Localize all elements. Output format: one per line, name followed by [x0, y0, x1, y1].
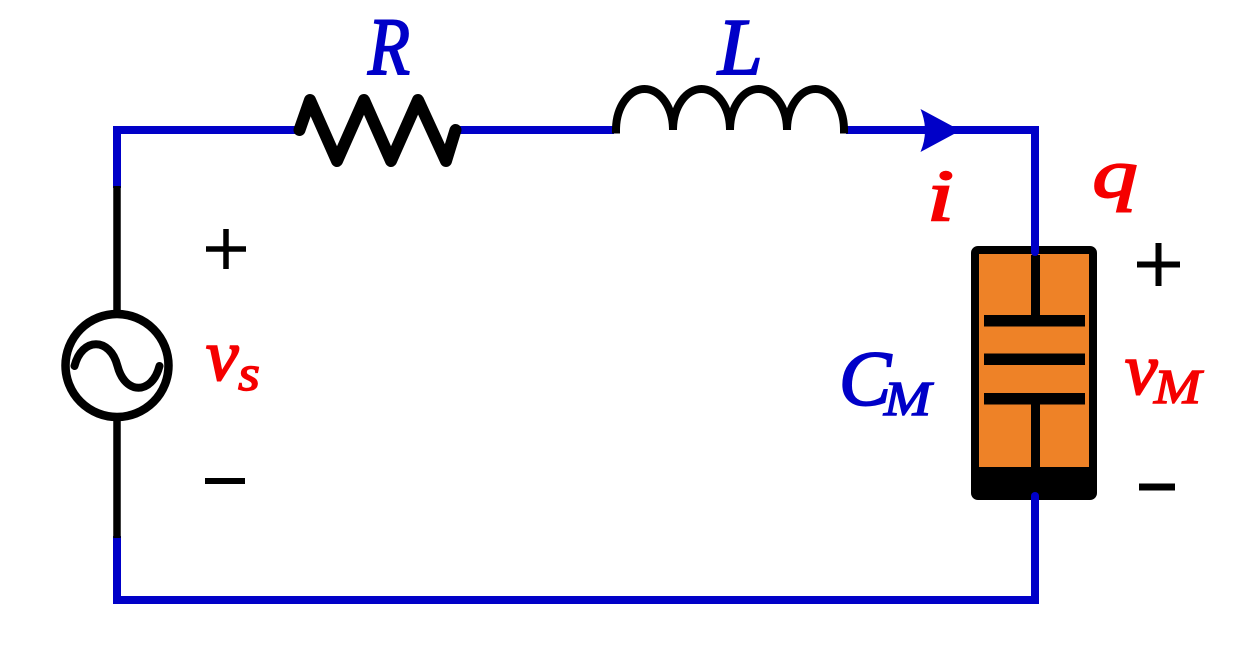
inductor L: 4 arcs: [616, 89, 844, 134]
svg-text:s: s: [238, 345, 260, 401]
wire: bottom (blue): [113, 596, 1039, 604]
svg-text:q: q: [1093, 136, 1138, 212]
svg-text:i: i: [927, 155, 954, 236]
wire: top-left corner (blue) from left vertical up to resistor: [117, 130, 295, 188]
wire: top-right vertical (blue) corner down into memristor: [1031, 130, 1039, 252]
arrowhead: current direction i (blue): [921, 109, 961, 152]
memristor CM: plate 2: [984, 354, 1085, 366]
memristor CM: internal bottom lead: [1031, 404, 1040, 469]
svg-text:v: v: [206, 315, 239, 396]
label + (source, plus): [206, 229, 246, 269]
label - (source, minus): [205, 478, 245, 484]
memristor CM: internal top lead: [1031, 255, 1040, 316]
source lead bottom (black): [113, 416, 121, 538]
memristor CM: outer box (orange with black border): [975, 250, 1093, 496]
wire: bottom-left vertical (blue) source to bottom corner: [113, 536, 121, 600]
label + (memristor, plus): [1137, 243, 1180, 286]
memristor CM: plate 1: [984, 315, 1085, 327]
memristor CM: plate 3: [984, 393, 1085, 405]
svg-text:R: R: [367, 1, 410, 92]
AC source vs: circle: [66, 314, 169, 417]
resistor R: zigzag: [300, 100, 456, 161]
svg-text:L: L: [717, 4, 763, 92]
svg-text:M: M: [883, 371, 935, 426]
label - (memristor, minus): [1139, 484, 1175, 491]
wire: bottom-right vertical (blue) memristor to bottom corner: [1031, 496, 1039, 512]
wire: top right (blue) inductor to right corner: [846, 126, 1039, 134]
memristor CM: bottom electrode (black bar): [973, 467, 1095, 497]
wire: bottom-right vertical lower part (blue): [1031, 505, 1039, 604]
source lead top (black): [113, 186, 121, 316]
svg-text:M: M: [1153, 359, 1205, 414]
AC source vs: sine wave: [75, 344, 160, 388]
wire: top middle (blue) resistor to inductor: [458, 126, 614, 134]
